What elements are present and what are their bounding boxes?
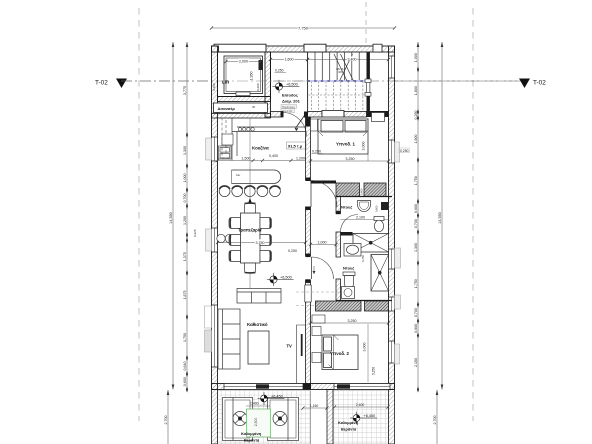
bath A door [341,215,359,233]
svg-text:Καθιστικό: Καθιστικό [247,322,268,327]
veranda right side wall [389,390,395,444]
svg-text:T-02: T-02 [95,80,108,87]
cistern box A [381,202,388,210]
svg-text:/28: /28 [338,70,342,74]
stairwell right wall [367,52,370,112]
lounge chair right [268,398,299,441]
section line T-02 overlay [121,80,211,82]
corner column top-left [212,46,219,52]
stair break line blue [308,80,367,82]
svg-text:91,5 τ.μ: 91,5 τ.μ [288,143,303,148]
svg-text:3,000: 3,000 [363,343,367,352]
svg-text:0,250: 0,250 [361,255,365,262]
svg-text:2,500: 2,500 [254,418,258,427]
lounge chair left [223,398,253,441]
hall wall upper segment [306,118,311,181]
door jamb blocks [281,112,341,283]
svg-text:2,700: 2,700 [433,416,437,425]
entrance door leaf and swing [283,113,307,137]
dim 2,000 lift [226,61,261,63]
svg-text:0,250: 0,250 [414,111,418,120]
svg-text:Βεράντα: Βεράντα [244,439,260,443]
kitchen axis line [249,118,251,289]
svg-text:1,750: 1,750 [414,176,418,185]
outer wall top [212,46,395,52]
area label 91,5 sqm [287,142,307,149]
dim 1,600 corridor [271,59,308,61]
dining chairs [229,203,272,273]
kitchen fridge [222,134,233,145]
svg-text:1,800: 1,800 [414,86,418,95]
stairwell left boundary [307,52,309,112]
sill outside dining window [206,229,212,251]
svg-text:Κουζίνα: Κουζίνα [252,146,269,151]
dining table [241,213,261,263]
toilet A [374,217,384,232]
sofa top three-seater [237,289,281,304]
veranda right floor tiles [333,391,389,444]
fire door tags [281,105,297,109]
svg-text:1,000: 1,000 [414,53,418,62]
lintel over stairs in top wall [304,44,326,52]
divider wall bath A/B [341,232,353,236]
wardrobe stub top-left bedroom2 [312,315,325,323]
dimension chain left wall chain [186,42,188,390]
bath block top wall [336,196,392,198]
window right bath B [389,297,395,311]
wall below stairs hatched right part [344,112,367,118]
svg-text:14,550: 14,550 [438,212,442,224]
svg-text:2,100: 2,100 [356,216,365,220]
svg-text:7,750: 7,750 [298,25,309,30]
wardrobe bedroom1 right [364,183,386,197]
shower tray B [371,255,389,292]
stair wall projection dashed line top [365,2,367,45]
svg-text:0,250: 0,250 [372,367,376,375]
label veranda right [338,421,359,432]
sink B [344,244,361,257]
veranda left side wall [212,390,218,444]
svg-text:0,600: 0,600 [414,324,418,333]
dim 2,400 veranda right [335,406,389,408]
svg-text:0,700: 0,700 [183,194,187,203]
svg-text:0,250: 0,250 [288,249,297,253]
wardrobe bedroom1 left [336,183,360,197]
shower tray A [353,234,389,253]
outer wall right [389,46,395,390]
AC unit right wall middle [395,248,401,268]
svg-text:Τραπεζαρία: Τραπεζαρία [238,228,262,233]
svg-text:2,700: 2,700 [164,416,168,425]
sill outside bedroom2 window [395,344,400,364]
svg-text:3,775: 3,775 [183,86,187,95]
machine room Asanser box [214,103,268,113]
veranda left floor tiles [218,391,311,444]
wall below stairs dark corner [367,111,389,117]
svg-text:1,800: 1,800 [414,135,418,144]
veranda height dim 2,700 left [167,390,169,444]
label veranda left [241,432,262,443]
svg-text:0,640: 0,640 [183,362,187,371]
overall height dimension 14,550 right [441,42,443,390]
svg-text:1,750: 1,750 [414,279,418,288]
hall wall middle segment [306,207,311,256]
veranda table green [247,409,271,437]
svg-text:1,500: 1,500 [242,157,251,161]
svg-text:0,700: 0,700 [414,219,418,228]
bottom wall living slider [224,384,303,390]
svg-text:Ντουζ: Ντουζ [343,266,354,271]
level marker living +6,500 [267,273,294,286]
svg-text:3,750: 3,750 [256,241,265,245]
level marker veranda left +6,450 [258,392,285,405]
wardrobe bedroom2 left [316,301,362,311]
svg-text:1,000: 1,000 [318,240,327,244]
svg-text:1,400: 1,400 [250,402,259,406]
TV panel [301,334,303,356]
svg-text:Καλυμμένη: Καλυμμένη [338,421,359,425]
bath block left wall [336,197,341,214]
svg-text:1,375: 1,375 [183,252,187,261]
svg-text:Καλυμμένη: Καλυμμένη [241,432,262,436]
nightstand 2 bottom [312,353,321,363]
sill outside kitchen window [206,138,212,160]
level marker veranda right +6,450 [350,412,377,425]
svg-text:Υπνοδ. 2: Υπνοδ. 2 [330,351,350,356]
svg-text:+6,450: +6,450 [271,394,283,398]
hidden beam dashed lines hall [296,292,341,306]
svg-text:0,600: 0,600 [359,188,363,195]
svg-text:3,250: 3,250 [348,319,357,323]
svg-text:0,250: 0,250 [312,150,321,154]
nightstand 1 right [372,113,385,122]
dining dim row 3,750 [218,242,306,244]
door dining to hall [311,181,338,208]
small arrow hall [313,266,315,274]
kitchen sink [219,146,232,159]
bedroom1 hall stub wall [311,181,337,184]
dim 3,250 bedroom2 [311,322,389,324]
TV unit [297,325,306,383]
svg-text:Ασανσέρ: Ασανσέρ [218,106,236,111]
sill outside living window lower [205,330,212,352]
bed 1 [318,119,368,154]
dark pier left of stairs bottom wall [304,112,308,118]
window right stair room [389,56,395,78]
window left dining [212,228,218,252]
hall wall pier dark [306,118,311,127]
sink A [358,201,371,212]
label entrance [282,93,301,104]
svg-text:+6,500: +6,500 [286,82,298,86]
wall right of lift [265,52,271,117]
corridor bottom wall left stub [271,112,284,118]
outer wall bottom [212,384,395,390]
lintel over lift in top wall [214,44,266,52]
svg-text:1,300: 1,300 [183,146,187,155]
lift door [236,92,250,96]
svg-text:0,600: 0,600 [414,204,418,213]
wall below lift [218,97,271,102]
svg-text:2,150: 2,150 [414,358,418,367]
level marker entrance +6,500 [272,80,299,93]
wall below machine room [212,114,271,119]
veranda divider wall [327,390,333,444]
window right bedroom1 [389,140,395,163]
svg-text:TV: TV [287,344,293,349]
veranda height dim 2,700 right [436,390,438,444]
sofa left four-seater [218,309,240,369]
lintel in wall below stairs [322,111,344,118]
planter circles at dining window [217,234,225,242]
svg-text:1,000: 1,000 [183,174,187,183]
svg-text:2,400: 2,400 [356,403,365,407]
svg-text:1,875: 1,875 [183,291,187,300]
svg-text:1,150: 1,150 [310,404,319,408]
window right bath A [389,249,395,269]
dim 1,150 veranda gap [303,407,327,409]
svg-text:T-02: T-02 [533,80,546,87]
overall width dimension 7,750 [212,27,395,29]
svg-text:0,700: 0,700 [414,308,418,317]
svg-text:Lift: Lift [222,80,230,85]
svg-text:0,600: 0,600 [375,205,379,212]
bottom wall bedroom2 slider [334,384,390,390]
sill outside living window upper [205,306,212,328]
bar counter [232,170,281,183]
svg-text:Πυράντοχη: Πυράντοχη [282,105,295,109]
svg-text:+6,500: +6,500 [280,275,292,279]
svg-text:Είσοδος: Είσοδος [282,93,298,98]
lift counterweight [259,60,264,70]
bath B bottom wall [336,300,392,302]
veranda middle gap border [310,391,312,444]
wall below stairs hatched left part [308,112,322,118]
svg-text:1,200: 1,200 [183,216,187,225]
svg-text:1,200: 1,200 [296,157,305,161]
svg-text:+6,450: +6,450 [364,414,376,418]
svg-text:3,000: 3,000 [362,142,366,151]
svg-text:Διαμ. 201: Διαμ. 201 [282,99,301,104]
window left living [212,305,218,367]
AC unit right wall lower [395,295,401,309]
toilet B [343,272,355,289]
bed 2 [322,335,358,370]
svg-text:bar: bar [236,173,240,177]
window left kitchen [212,137,218,161]
lintel small top wall right [373,44,382,52]
dimension chain right wall chain [417,42,419,390]
outer wall left [212,46,218,390]
wardrobe bedroom2 right [365,301,389,311]
svg-text:Υπνοδ. 1: Υπνοδ. 1 [336,142,356,147]
svg-text:0,225: 0,225 [193,229,197,237]
svg-text:1,750: 1,750 [183,333,187,342]
nightstand 2 top [312,327,321,336]
dim 3,250 bedroom1 [311,160,389,162]
section marker T-02 left [95,79,127,89]
section marker T-02 right [519,79,546,89]
kitchen dim row [218,160,254,162]
overall height dimension 14,550 left [172,42,174,390]
hall dim 1,000 [311,244,337,246]
svg-text:1,300: 1,300 [414,243,418,252]
nightstand 1 left [311,119,318,131]
svg-text:14,550: 14,550 [169,212,173,224]
stair treads lower dashed [309,81,367,111]
svg-text:2,000: 2,000 [239,60,248,64]
dim 3,400 stairs [308,59,389,61]
kitchen upper cabinets dashed [222,118,232,159]
svg-text:Ντουζ: Ντουζ [341,205,352,210]
hall wall lower segment [306,280,311,384]
site boundary dashed line right [472,8,474,421]
lift cabin [224,56,263,94]
svg-text:1,600: 1,600 [285,58,294,62]
hob circles [238,128,254,131]
pocket door panel in wall [305,285,311,302]
window right bedroom2 [389,341,395,363]
stair break diagonals [334,54,347,81]
door hall to bedroom2 zone [312,257,334,279]
svg-text:Βεράντα: Βεράντα [341,428,357,432]
coffee table [248,331,269,364]
svg-text:3,250: 3,250 [346,157,355,161]
sill outside bedroom1 window [395,142,400,162]
svg-text:0,600: 0,600 [183,377,187,386]
svg-text:0,200: 0,200 [212,83,216,91]
washing machine B [342,287,355,299]
site boundary dashed line left [138,8,140,421]
svg-text:36: 36 [252,105,256,109]
svg-text:0,400: 0,400 [269,154,278,158]
lift shaft wall [218,52,271,97]
bar stools [219,186,280,197]
bottom wall pier [303,384,311,390]
kitchen counter top [232,118,306,161]
svg-text:0,200: 0,200 [256,83,260,91]
stair treads upper [308,52,360,81]
svg-text:0,250: 0,250 [275,69,284,73]
svg-text:1,950: 1,950 [250,72,254,81]
svg-text:3,400: 3,400 [348,58,357,62]
duct room door top right [367,80,370,96]
section line T-02 [121,80,523,82]
svg-text:0,250: 0,250 [400,149,409,153]
